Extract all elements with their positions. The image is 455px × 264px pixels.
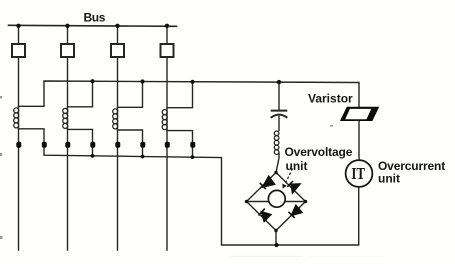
svg-text:unit: unit [378, 172, 400, 186]
svg-text:IT: IT [351, 166, 365, 184]
svg-text:Overvoltage: Overvoltage [285, 145, 353, 159]
svg-text:Varistor: Varistor [308, 92, 353, 106]
svg-text:unit: unit [286, 159, 308, 173]
svg-text:Bus: Bus [84, 11, 106, 25]
